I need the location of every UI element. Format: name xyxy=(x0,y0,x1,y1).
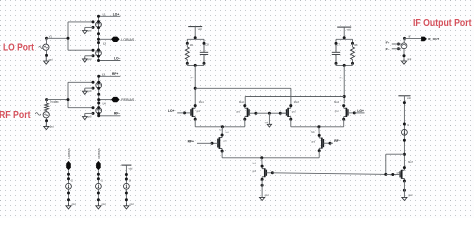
svg-text:RF−: RF− xyxy=(114,112,120,116)
svg-text:IF Output Port: IF Output Port xyxy=(413,18,472,29)
svg-text:IF_OUT: IF_OUT xyxy=(428,37,439,41)
svg-text:RFBIAS: RFBIAS xyxy=(121,98,135,102)
svg-text:gnd: gnd xyxy=(49,58,54,61)
svg-text:RFBIAS: RFBIAS xyxy=(97,148,101,158)
svg-text:gnd: gnd xyxy=(102,203,107,206)
svg-text:LO Port: LO Port xyxy=(3,42,34,53)
svg-text:LO+: LO+ xyxy=(357,109,364,113)
svg-text:LO+: LO+ xyxy=(168,109,175,113)
svg-text:LO+: LO+ xyxy=(113,12,120,16)
svg-text:gnd: gnd xyxy=(223,140,226,142)
svg-text:gnd: gnd xyxy=(87,115,92,118)
svg-text:RF Port: RF Port xyxy=(0,110,31,121)
svg-text:gnd: gnd xyxy=(50,125,55,128)
svg-text:gnd: gnd xyxy=(265,194,270,197)
svg-text:RF+: RF+ xyxy=(112,72,118,76)
svg-text:gnd: gnd xyxy=(87,29,92,32)
svg-text:RF+: RF+ xyxy=(188,140,194,144)
svg-text:IF+: IF+ xyxy=(386,41,390,45)
svg-text:RF−: RF− xyxy=(334,139,340,143)
svg-text:PORB8: PORB8 xyxy=(50,101,59,104)
svg-text:Mo2: Mo2 xyxy=(239,100,245,104)
svg-text:LOBIAS: LOBIAS xyxy=(67,148,71,158)
svg-text:Mo3: Mo3 xyxy=(294,100,300,104)
svg-text:gnd: gnd xyxy=(408,194,413,197)
svg-text:Mo7: Mo7 xyxy=(408,160,414,164)
svg-text:gnd: gnd xyxy=(130,203,135,206)
svg-text:gnd: gnd xyxy=(87,90,92,93)
svg-text:Mo1: Mo1 xyxy=(199,100,205,104)
svg-text:gnd: gnd xyxy=(72,203,77,206)
svg-text:Mo4: Mo4 xyxy=(334,100,340,104)
svg-text:gnd: gnd xyxy=(87,58,92,61)
svg-text:LO−: LO− xyxy=(114,56,121,60)
svg-text:IF−: IF− xyxy=(386,47,390,51)
svg-text:LOBIAS: LOBIAS xyxy=(121,38,135,42)
svg-text:gnd: gnd xyxy=(407,58,412,61)
